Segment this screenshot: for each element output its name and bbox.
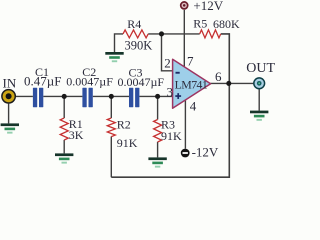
svg-text:OUT: OUT <box>246 61 275 76</box>
svg-text:3K: 3K <box>69 128 84 142</box>
svg-text:7: 7 <box>187 54 194 69</box>
svg-text:+12V: +12V <box>193 0 223 13</box>
svg-text:-12V: -12V <box>192 145 219 160</box>
svg-text:IN: IN <box>3 76 17 91</box>
svg-text:91K: 91K <box>117 136 138 150</box>
svg-text:R4: R4 <box>127 17 141 31</box>
svg-text:2: 2 <box>164 56 171 71</box>
svg-text:0.0047µF: 0.0047µF <box>66 75 113 89</box>
svg-text:LM741: LM741 <box>175 78 208 92</box>
svg-text:R2: R2 <box>117 117 131 131</box>
svg-text:6: 6 <box>215 69 222 84</box>
svg-text:91K: 91K <box>161 129 182 143</box>
svg-text:0.47µF: 0.47µF <box>24 74 61 89</box>
svg-text:390K: 390K <box>125 38 153 52</box>
svg-text:680K: 680K <box>213 17 240 31</box>
svg-text:4: 4 <box>190 99 197 114</box>
svg-text:3: 3 <box>167 85 174 100</box>
svg-text:0.0047µF: 0.0047µF <box>118 75 165 89</box>
svg-text:R5: R5 <box>193 16 207 30</box>
